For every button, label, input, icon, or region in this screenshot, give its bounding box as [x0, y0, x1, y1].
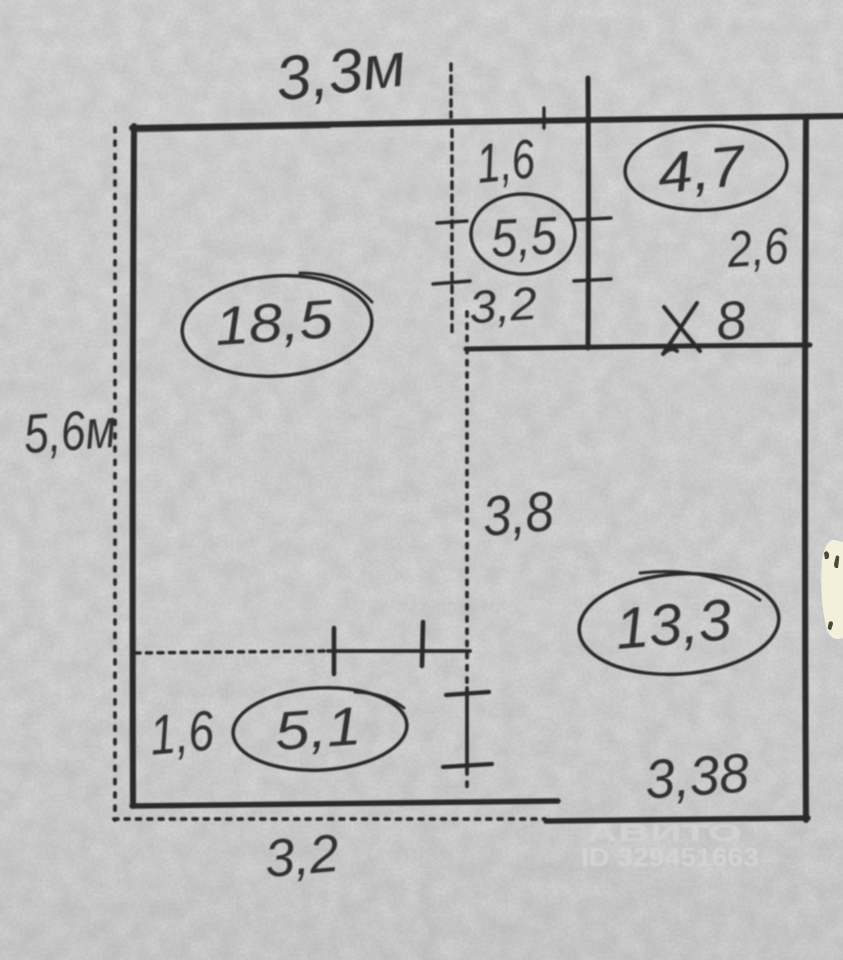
dimension line: bottom dotted horizontal (3,2): [114, 817, 545, 821]
ellipse around 5,5: [471, 194, 575, 274]
wall: top exterior: [132, 116, 843, 128]
svg-text:13,3: 13,3: [613, 587, 734, 662]
ellipse around 5,1: [231, 684, 409, 775]
svg-text:5,6м: 5,6м: [22, 397, 118, 465]
svg-text:18,5: 18,5: [213, 289, 336, 357]
wall: right exterior: [805, 118, 806, 820]
svg-text:ID 329451663: ID 329451663: [581, 842, 759, 872]
tick: vertical bar at x=334 on dashed line: [332, 628, 337, 674]
svg-text:1,6: 1,6: [147, 698, 217, 766]
dimension line: central dotted vertical (3,8) upper part: [465, 312, 469, 688]
dimension line: horizontal solid segment with ticks: [328, 649, 470, 653]
svg-text:5,1: 5,1: [273, 696, 363, 762]
svg-text:3,38: 3,38: [643, 741, 751, 810]
ellipse around 13,3: [576, 567, 782, 681]
dimension line: top dashed vertical above wall (3,3м): [449, 64, 453, 117]
tick: horizontal on dashed line y=222: [437, 221, 467, 223]
tick: horizontal on wall x=588 y=280: [574, 279, 611, 281]
tick: vertical crossing top wall at x=544: [542, 108, 545, 128]
tick: horizontal on wall x=588 y=219: [573, 218, 611, 220]
cross-out X before 8: [663, 303, 700, 354]
svg-text:2,6: 2,6: [725, 217, 791, 278]
tick: horizontal on central line y=766: [443, 764, 492, 767]
svg-text:3,2: 3,2: [262, 824, 341, 889]
svg-text:4,7: 4,7: [654, 133, 750, 206]
svg-text:3,8: 3,8: [480, 479, 556, 548]
dimension line: left dotted vertical (5,6м): [113, 128, 117, 820]
dimension line: dashed vertical below top wall (1,6 / 3,2): [450, 130, 454, 335]
svg-text:8: 8: [713, 290, 749, 353]
white correction blob at right edge: [821, 540, 843, 639]
ellipse 5,1 overlap stroke: [355, 692, 404, 708]
ellipse around 4,7: [623, 122, 789, 214]
svg-text:1,6: 1,6: [474, 127, 538, 195]
tick: vertical bar at x=422 on dashed line: [422, 622, 423, 666]
dark specks inside blob: [824, 551, 839, 630]
wall: horizontal below rooms 5,5 and 4,7: [466, 345, 810, 349]
svg-text:5,5: 5,5: [489, 206, 558, 268]
wall: bottom left (room 5,1): [132, 801, 558, 806]
wall: left exterior: [133, 126, 134, 806]
ellipse 18,5 overlap stroke: [300, 273, 372, 302]
tick: horizontal on dashed line y=283: [433, 281, 470, 284]
wall: bottom right (room 13,3): [546, 818, 808, 821]
tick: horizontal on central line y=694: [446, 692, 489, 695]
ellipse around 18,5: [179, 269, 376, 382]
wall: top retrace stroke: [138, 127, 330, 131]
ellipse 13,3 overlap stroke: [640, 572, 760, 600]
dimension line: central dotted vertical lower stub: [465, 770, 469, 790]
dimension line: horizontal dashed top of room 5,1: [135, 651, 328, 653]
svg-text:3,2: 3,2: [467, 277, 538, 334]
wall: vertical between rooms 5,5 and 4,7: [586, 78, 592, 348]
dimension line: central vertical solid between ticks: [465, 688, 469, 770]
